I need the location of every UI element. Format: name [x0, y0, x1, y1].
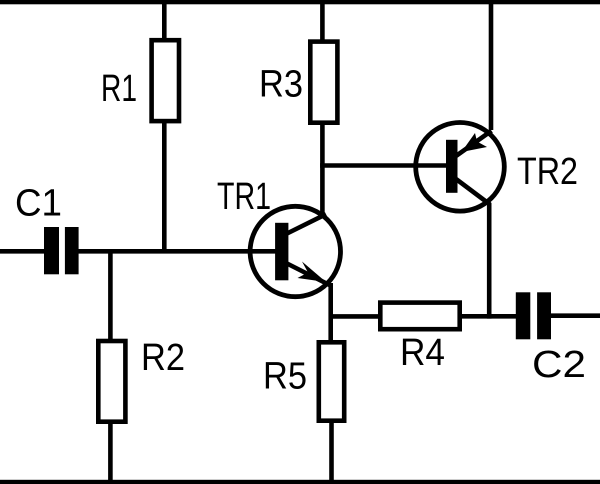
wire: R1 to base node	[162, 121, 167, 253]
resistor R4	[380, 303, 459, 330]
svg-text:TR2: TR2	[517, 150, 578, 193]
capacitor C1	[44, 227, 79, 274]
wire: input lead	[0, 249, 46, 254]
svg-text:R1: R1	[101, 67, 137, 110]
wire: bottom 0V rail	[0, 480, 600, 484]
resistor R1	[152, 40, 179, 121]
resistor R5	[319, 342, 344, 420]
svg-text:R2: R2	[141, 336, 185, 379]
wire: collector node to TR2 base	[320, 163, 447, 168]
svg-text:R5: R5	[263, 355, 307, 398]
wire: emitter node to R4	[329, 314, 381, 319]
wire: TR2 collector down to R4/C2 node	[487, 203, 492, 319]
wire: top rail to R1	[162, 0, 167, 42]
wire: top supply rail	[0, 0, 600, 4]
svg-text:C2: C2	[532, 343, 586, 386]
wire: TR1 emitter down	[328, 283, 333, 343]
transistor TR1	[250, 206, 340, 296]
wire: top rail to R3	[320, 0, 325, 42]
svg-text:R4: R4	[400, 331, 445, 374]
resistor R3	[310, 42, 337, 123]
svg-text:R3: R3	[259, 63, 303, 106]
svg-text:C1: C1	[15, 182, 62, 225]
transistor TR2	[416, 123, 505, 212]
resistor R2	[98, 341, 125, 422]
capacitor C2	[516, 292, 551, 339]
wire: node down to R2	[108, 249, 113, 341]
svg-text:TR1: TR1	[217, 175, 271, 218]
wire: C1 to TR1 base	[78, 249, 277, 254]
wire: R2 to 0V rail	[108, 422, 113, 484]
wire: R4 to C2 node	[460, 314, 518, 319]
wire: R5 to 0V rail	[329, 421, 334, 484]
wire: output lead	[551, 313, 600, 318]
wire: R3 down to TR1 collector	[320, 123, 325, 218]
wire: top rail to TR2 emitter	[489, 0, 494, 130]
